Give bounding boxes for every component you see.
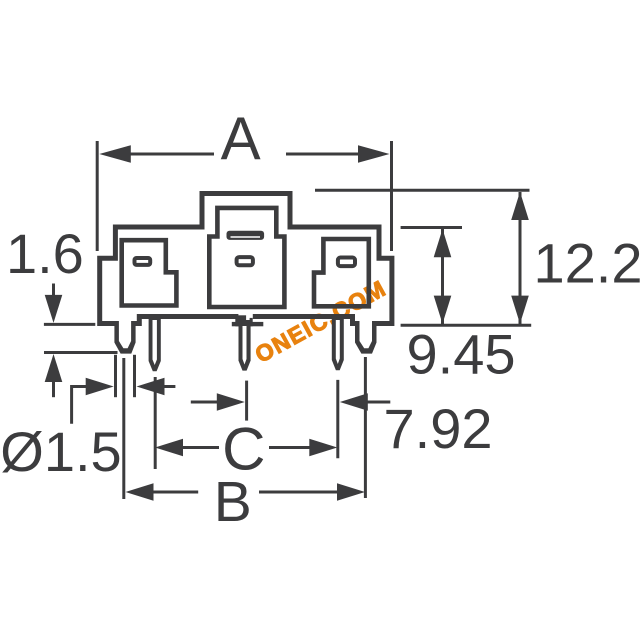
B dimension line left segment xyxy=(153,491,199,494)
center cavity slot xyxy=(237,257,253,265)
9.45 top arrowhead xyxy=(434,229,452,257)
svg-text:7.92: 7.92 xyxy=(384,397,493,460)
right mounting peg xyxy=(355,321,377,354)
12.2 dimension line xyxy=(519,192,522,324)
dia 1.5 left extension line xyxy=(114,355,117,397)
pin 2 (left signal pin) xyxy=(149,314,161,371)
left cavity outline xyxy=(122,240,177,305)
dimension A left extension line xyxy=(96,141,99,251)
left mounting peg xyxy=(114,321,135,354)
7.92 left extension line (center pin) xyxy=(245,381,248,421)
left cavity slot xyxy=(135,258,151,265)
C left extension line xyxy=(154,377,157,469)
C dimension line left segment xyxy=(182,446,219,449)
dimension A left arrowhead xyxy=(99,145,131,163)
B right arrowhead xyxy=(337,483,365,501)
B left arrowhead xyxy=(126,483,154,501)
watermark ONEIC.COM xyxy=(251,275,391,368)
svg-text:A: A xyxy=(221,105,261,172)
1.6 lower arrowhead pointing up xyxy=(45,354,63,382)
dimension A line left segment xyxy=(128,153,214,156)
connector body outline xyxy=(100,194,392,324)
dia 1.5 left arrow tail with bend xyxy=(72,387,87,424)
7.92 right arrowhead pointing left xyxy=(340,393,368,411)
1.6 bottom reference line (peg tip) xyxy=(44,351,118,354)
9.45 top reference line xyxy=(401,226,462,229)
C dimension line right segment xyxy=(269,446,311,449)
9.45 bottom arrowhead xyxy=(434,296,452,324)
12.2 bottom arrowhead xyxy=(511,296,529,324)
12.2 top arrowhead xyxy=(511,192,529,220)
7.92 left arrowhead pointing right xyxy=(217,393,245,411)
1.6 top reference line xyxy=(44,323,95,326)
9.45 dimension line xyxy=(441,229,444,324)
dia 1.5 right arrow tail xyxy=(164,385,176,388)
C right arrowhead xyxy=(309,439,337,457)
dia 1.5 left arrowhead pointing right xyxy=(86,378,114,396)
svg-text:B: B xyxy=(214,470,252,534)
dia 1.5 right extension line xyxy=(133,355,136,397)
C right extension line xyxy=(336,380,339,458)
svg-text:Ø1.5: Ø1.5 xyxy=(0,420,121,483)
svg-text:12.2: 12.2 xyxy=(534,232,640,295)
7.92 left arrow tail xyxy=(191,401,218,404)
center pin boss and collar xyxy=(238,314,252,320)
1.6 upper arrow tail xyxy=(52,284,55,297)
center cavity outline xyxy=(209,208,284,307)
dia 1.5 right arrowhead pointing left xyxy=(137,378,165,396)
dimension A line right segment xyxy=(286,153,362,156)
right cavity slot xyxy=(338,258,355,267)
dimension A right extension line xyxy=(390,141,393,251)
dimension A right arrowhead xyxy=(358,145,390,163)
center cavity wide latch bar xyxy=(227,231,265,240)
svg-text:9.45: 9.45 xyxy=(407,323,516,386)
B right extension line xyxy=(364,357,367,498)
B left extension line xyxy=(122,358,125,499)
center pin xyxy=(239,320,251,371)
pin 4 (right signal pin) xyxy=(332,314,344,370)
C left arrowhead xyxy=(155,439,183,457)
1.6 upper arrowhead pointing down xyxy=(45,295,63,323)
12.2 top reference line xyxy=(315,189,530,192)
svg-text:1.6: 1.6 xyxy=(6,222,84,285)
bottom reference line (seating plane) xyxy=(401,324,532,327)
1.6 lower arrow tail xyxy=(52,381,55,397)
right cavity outline xyxy=(314,239,369,306)
B dimension line right segment xyxy=(259,491,338,494)
7.92 right arrow tail xyxy=(367,401,390,404)
